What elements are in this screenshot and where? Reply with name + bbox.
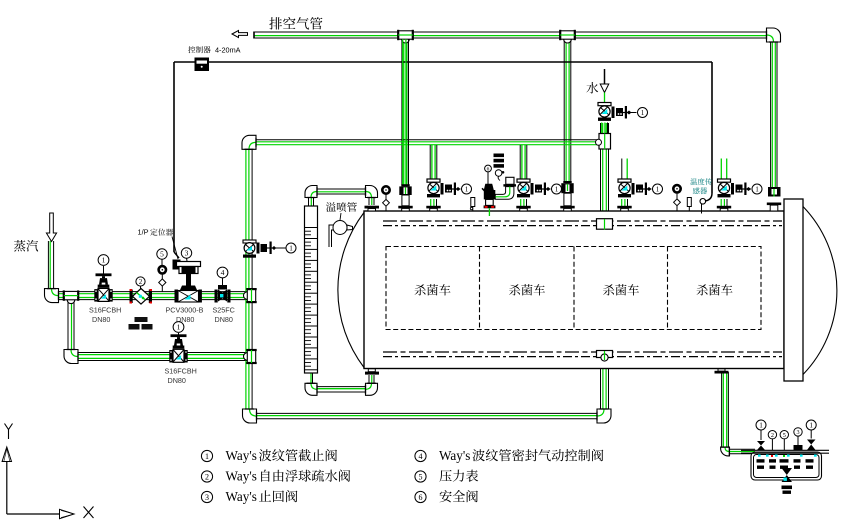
svg-text:6: 6 [487, 166, 490, 172]
svg-text:S25FC: S25FC [213, 306, 235, 315]
arrow exhaust flow left [232, 31, 248, 38]
temperature sensor w/ label [690, 178, 712, 213]
stub tank bottom left drain [365, 369, 379, 375]
svg-text:2: 2 [205, 472, 209, 481]
label S16FCBH DN80 line1 [89, 306, 121, 325]
elbow riser top x249 [242, 135, 256, 149]
elbow centre drain bottom [597, 409, 611, 423]
svg-text:Way's: Way's [439, 448, 470, 463]
gauge w/ diamond x677 [673, 185, 680, 211]
elbow level gauge top left [305, 186, 317, 198]
tee riser/steam line2 [244, 350, 257, 363]
label S25FC DN80 [213, 306, 235, 325]
legend entry 1 [201, 448, 337, 463]
valve gate S16FCBH line2 w/ 1 [169, 322, 187, 363]
svg-text:1: 1 [289, 245, 293, 253]
elbow level gauge top right [366, 186, 378, 198]
flange spray pipe on tank top [365, 206, 380, 211]
wire tank centre drain drop [601, 357, 609, 412]
label sterilizer cart 4 [697, 284, 733, 295]
label below trap (tiny install note) [129, 317, 153, 330]
label overflow spray pipe 溢喷管 [326, 202, 357, 220]
wire signal line vertical to positioner [174, 62, 179, 258]
arrow water inlet down [600, 69, 609, 103]
flange air joint x774 on tank top [767, 187, 781, 211]
wire right drain horizontal to header tank [728, 449, 755, 453]
tank sterilizer vessel body [364, 211, 784, 369]
wire water/steam header y142 [249, 140, 598, 145]
thermowell x473 [470, 198, 475, 212]
tank left dome [338, 213, 364, 368]
header top small valves w/ labels [756, 420, 817, 457]
valve S25FC w/ 4 [215, 267, 231, 302]
tee riser/steam line1 [244, 289, 257, 302]
tank door flange right [784, 199, 803, 381]
svg-text:5: 5 [783, 432, 786, 439]
compact vent valve x405 on tank [398, 39, 412, 211]
wire steam inlet vertical [48, 241, 53, 289]
elbow steam branch bottom [64, 350, 78, 364]
compartment boxes dashed [386, 247, 761, 330]
legend entry 3 [201, 489, 297, 504]
compact vent valve x567 on tank [560, 181, 574, 211]
svg-text:1: 1 [755, 186, 759, 194]
svg-text:1: 1 [465, 186, 469, 194]
label S16FCBH DN80 line2 [165, 367, 197, 386]
header baffle dashes [757, 459, 814, 469]
spray ball inside tank [329, 221, 353, 248]
wire vent riser x567 (tee to tank valve) [564, 38, 571, 182]
elbow exhaust top right [767, 28, 781, 42]
elbow riser bottom [243, 409, 257, 423]
svg-text:S16FCBH: S16FCBH [165, 367, 197, 376]
elbow right drain [721, 447, 730, 456]
legend entry 6 [415, 490, 478, 503]
tee fitting exhaust/vent x567 [560, 30, 575, 43]
wire exhaust header pipe top [254, 32, 774, 39]
wire steam branch vertical x71 [68, 300, 74, 351]
label water 水 [586, 82, 598, 93]
arrow steam inlet down [46, 213, 56, 242]
svg-text:4: 4 [419, 452, 423, 461]
tank bottom rail dashed lines [383, 352, 782, 357]
svg-text:1: 1 [205, 452, 209, 461]
svg-text:3: 3 [796, 429, 799, 436]
axis symbol XY bottom left [2, 424, 93, 519]
svg-text:6: 6 [419, 493, 423, 502]
wire air riser x774 (elbow to tank joint) [771, 41, 777, 188]
svg-text:DN80: DN80 [168, 376, 186, 385]
wire vent riser x405 (tee to tank valve) [402, 38, 408, 185]
svg-text:5: 5 [419, 472, 423, 481]
label controller 4-20mA [188, 46, 240, 55]
svg-text:DN80: DN80 [215, 315, 233, 324]
svg-text:3: 3 [205, 493, 209, 502]
wire water drop pipe x604.5 [601, 123, 609, 221]
valve gate S16FCBH line1 [94, 255, 112, 302]
wire steam main line 1 [55, 292, 249, 300]
svg-text:1: 1 [641, 109, 645, 117]
svg-text:2: 2 [139, 278, 143, 286]
svg-text:1: 1 [555, 186, 559, 194]
check/trap valve 2 on steam line [130, 277, 153, 304]
globe valve C x523.5 w/ 1 [516, 145, 561, 211]
safety valve 6 w/ silencer [482, 154, 516, 217]
svg-text:1: 1 [102, 256, 106, 265]
control valve PCV3000-B pneumatic w/ 3 [173, 248, 202, 303]
globe valve F x624.5 w/ 1 (stub pipe) [617, 159, 662, 212]
wire signal line vertical to temperature sensor [705, 62, 712, 201]
condensate header tank [741, 450, 829, 480]
label sterilizer cart 1 [415, 284, 451, 295]
tee steam branch down x71 [64, 290, 79, 303]
coupling water w/ tee bump [596, 134, 611, 150]
legend entry 5 [415, 470, 478, 483]
tee centre drain on tank bottom rail [597, 351, 613, 362]
elbow level gauge bottom left [305, 383, 317, 395]
svg-text:1: 1 [177, 323, 181, 332]
wire bottom drain header y416 [255, 413, 601, 418]
svg-text:1: 1 [809, 422, 813, 430]
wire steam line 2 [77, 353, 249, 361]
valve water inlet globe w/ handwheel [598, 103, 648, 135]
stub tank bottom right drain [715, 369, 729, 374]
svg-text:PCV3000-B: PCV3000-B [166, 306, 204, 315]
label PCV3000-B DN80 [166, 306, 204, 325]
label sterilizer cart 3 [603, 284, 639, 295]
svg-text:Way's: Way's [226, 489, 257, 504]
level gauge column [305, 206, 318, 373]
svg-text:3: 3 [185, 249, 189, 258]
svg-text:4-20mA: 4-20mA [215, 46, 241, 55]
gauge w/ diamond on tank top left [382, 186, 389, 211]
svg-text:1: 1 [656, 186, 660, 194]
header bottom drain valve [782, 468, 793, 494]
coupling water inlet on tank rail [597, 219, 613, 230]
elbow steam inlet [45, 289, 59, 303]
tank right dome door [803, 207, 837, 375]
svg-text:2: 2 [771, 432, 774, 439]
thermowell x689 [687, 198, 691, 212]
wire level gauge bottom connector [311, 373, 374, 392]
label steam 蒸汽 [14, 240, 38, 252]
legend entry 2 [201, 469, 350, 484]
valve on riser w/ 1 (globe, horizontal wheel) [243, 240, 296, 258]
globe valve G x724 w/ 1 (stub pipe) [717, 159, 762, 212]
wire signal line horizontal y62 [174, 61, 712, 63]
globe valve A x433.5 w/ 1 [426, 145, 471, 211]
tank top rail dashed lines [383, 221, 782, 226]
elbow level gauge bottom right [366, 383, 378, 395]
label sterilizer cart 2 [509, 284, 545, 295]
svg-text:DN80: DN80 [92, 315, 110, 324]
tee fitting exhaust/vent x405 [398, 30, 413, 43]
label exhaust pipe 排空气管 [269, 17, 322, 30]
label I/P positioner [138, 228, 179, 260]
wire riser pipe x249 [246, 145, 252, 412]
controller box 控制器 [195, 58, 210, 72]
gauge 5 on steam line [157, 249, 167, 292]
legend entry 4 [415, 448, 603, 463]
svg-text:5: 5 [160, 250, 164, 259]
wire level gauge top connector [309, 189, 375, 206]
svg-text:1/P: 1/P [138, 228, 149, 237]
svg-text:Way's: Way's [226, 448, 257, 463]
svg-text:1: 1 [759, 422, 763, 430]
wire right drain drop x725 [722, 372, 729, 448]
svg-text:Way's: Way's [226, 469, 257, 484]
svg-text:S16FCBH: S16FCBH [89, 306, 121, 315]
svg-text:4: 4 [221, 268, 225, 277]
